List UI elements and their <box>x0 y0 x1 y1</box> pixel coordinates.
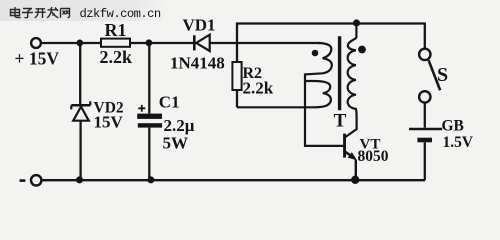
wire C1 branch upper <box>148 43 150 114</box>
watermark Chinese characters dian zi kai fa wang <box>11 7 70 18</box>
switch S blade <box>429 60 441 90</box>
svg-text:+ 15V: + 15V <box>15 48 60 68</box>
resistor R1 <box>101 39 130 47</box>
svg-text:R1: R1 <box>105 20 127 40</box>
wire VD2 branch upper <box>79 43 81 104</box>
wire VD2 branch lower <box>79 121 81 180</box>
battery GB positive plate <box>409 128 442 131</box>
node C1 bottom junction <box>147 176 154 183</box>
svg-text:GB: GB <box>442 117 464 134</box>
wire emitter to bottom rail <box>355 160 357 181</box>
svg-text:8050: 8050 <box>358 148 389 165</box>
svg-text:VD1: VD1 <box>183 16 216 35</box>
capacitor C1 bottom plate <box>138 123 162 127</box>
diode VD1 <box>194 35 209 51</box>
wire riser and top supply rail to switch S <box>237 24 425 49</box>
node emitter on bottom rail <box>351 176 359 184</box>
terminal + input <box>31 38 41 48</box>
wire R2 top lead <box>236 43 238 62</box>
capacitor C1 top plate <box>137 114 162 119</box>
node C1 top junction <box>146 39 153 46</box>
minus polarity mark <box>20 179 26 182</box>
zener diode VD2 <box>71 101 90 120</box>
svg-text:1.5V: 1.5V <box>443 134 474 151</box>
svg-text:5W: 5W <box>163 134 189 153</box>
transistor VT emitter lead <box>346 152 355 158</box>
wire battery negative plate to bottom rail <box>424 142 426 180</box>
transistor VT base bar <box>343 134 346 158</box>
polarity dot primary winding <box>312 50 319 57</box>
battery GB negative plate <box>417 138 432 143</box>
switch S lower contact <box>419 91 430 102</box>
svg-text:2.2μ: 2.2μ <box>164 116 195 135</box>
polarity dot secondary winding <box>358 46 366 54</box>
node VD2 bottom junction <box>76 176 83 183</box>
svg-text:15V: 15V <box>94 112 124 131</box>
node secondary winding on top rail <box>353 19 360 26</box>
node VD2 top junction <box>76 40 83 47</box>
wire C1 branch lower <box>148 128 150 180</box>
svg-text:1N4148: 1N4148 <box>170 54 225 73</box>
switch S upper contact <box>419 49 430 60</box>
svg-text:2.2k: 2.2k <box>100 47 133 67</box>
transformer core <box>338 36 341 110</box>
plus polarity mark of C1 <box>138 105 145 112</box>
wire switch to battery positive plate <box>424 103 426 128</box>
terminal - input <box>31 175 41 185</box>
resistor R2 <box>232 62 241 90</box>
transistor VT emitter arrowhead <box>348 152 357 160</box>
svg-text:dzkfw.com.cn: dzkfw.com.cn <box>80 7 161 21</box>
svg-text:T: T <box>334 110 347 131</box>
transformer T primary winding lower section to R2 <box>237 81 331 107</box>
svg-text:2.2k: 2.2k <box>243 78 274 97</box>
transformer T secondary winding down to transistor collector <box>346 23 357 137</box>
wire bottom ground rail <box>42 179 425 181</box>
svg-text:C1: C1 <box>159 93 180 112</box>
wire top horizontal from +15V terminal through R1 and VD1 to transformer primary top <box>41 42 321 44</box>
transformer T primary winding upper section with tap lead down to transistor base wire <box>305 43 343 146</box>
svg-text:S: S <box>437 64 448 86</box>
wire R2 bottom lead down to winding-bottom row <box>236 90 238 107</box>
